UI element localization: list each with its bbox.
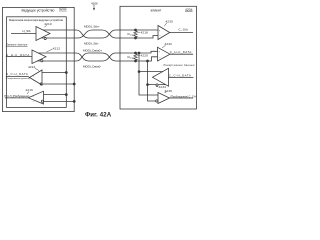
client box 4204 [120,6,197,109]
node 4216 minus tap [73,100,75,102]
svg-text:4212: 4212 [53,46,61,50]
wire H_C-H_DATA output [6,76,30,79]
label reverse data note [6,78,30,80]
receiver U4214 [30,68,43,85]
label MDDI_Stb- [84,42,99,46]
svg-text:C_Stb: C_Stb [179,27,189,31]
svg-text:4204: 4204 [185,8,193,12]
svg-text:Ведущее устройство: Ведущее устройство [22,9,55,13]
label C_C-H wake [170,95,196,98]
wire C_H-C_DATA output [170,53,193,55]
svg-text:Фиг. 42А: Фиг. 42А [85,111,112,118]
wire 4214 minus input [42,83,74,85]
wire H_Stb input [11,33,36,35]
label 4204 [185,8,193,12]
wire 4234 minus output [148,84,166,86]
driver U4210 [36,25,50,41]
label 4210 [44,22,52,26]
label client box title [151,9,162,13]
receiver U4236 [156,92,170,104]
wire 4216 minus input [44,100,75,102]
node 4234 minus tap [147,60,149,86]
resistor R4220 (Rterm on Data0 pair) [134,53,140,61]
node 4214 plus tap [65,72,67,74]
svg-text:Прямые данные: Прямые данные [6,44,28,47]
wire 4236 plus input [139,72,158,95]
wire 4234 minus tap to Data0- [147,61,149,85]
wire H_H-C_DATA input [6,46,32,56]
svg-text:Реверсивные данные: Реверсивные данные [164,64,196,67]
label Rterm bottom [128,55,136,60]
label C_H-C_DATA [170,50,192,54]
svg-text:H_C-H_(Пробуждение): H_C-H_(Пробуждение) [4,95,29,98]
svg-text:4214: 4214 [28,65,36,69]
label plus minus 4216 [33,96,35,103]
host inner box (host controller IC) [7,17,67,108]
svg-text:4210: 4210 [44,22,52,26]
label 4230 [166,19,174,23]
node 4214 minus tap [73,83,75,85]
svg-text:(Пробуждение) C_C-H: (Пробуждение) C_C-H [170,95,196,98]
node 4216 plus tap [65,94,67,96]
label C_C-H_DATA [169,74,191,78]
svg-text:C_C-H_DATA: C_C-H_DATA [169,74,191,78]
wire H_C-H wake output [5,97,29,99]
resistor R4218 (Rterm on Stb pair) [134,30,140,38]
node 4234 plus tap [138,52,140,73]
svg-text:H_C-H_DATA: H_C-H_DATA [6,72,28,76]
label H_C-H wake [4,95,29,98]
label Rterm top [128,32,136,37]
label plus minus 4232 [159,51,161,60]
label 4232 [165,42,173,46]
wire C_C-H_DATA input [169,77,194,79]
callout 4206 cable arrow [93,5,95,11]
label 4220 [141,53,149,57]
receiver U4232 [158,45,171,61]
svg-text:4202: 4202 [59,7,67,11]
svg-text:MDDI_Data0+: MDDI_Data0+ [83,49,102,53]
svg-text:4232: 4232 [165,42,173,46]
wire 4234 plus tap to Data0+ [138,53,140,72]
driver U4234 [153,68,169,86]
label MDDI_Stb+ [84,25,100,29]
label 4234 [156,85,166,89]
svg-text:клиент: клиент [151,9,162,13]
wire MDDI_Data0+ [38,51,158,61]
wire C_Stb output [170,32,193,34]
label H_H-C_DATA [6,53,30,57]
wire MDDI_Stb- [42,30,159,40]
wire 4214 plus input [42,72,66,74]
label 4202 [59,7,67,11]
node R4218 top [135,29,137,31]
label plus minus 4230 [159,29,161,37]
label MDDI_Data0+ [83,49,102,53]
node R4220 bottom [135,60,137,62]
label plus minus 4214 [33,75,35,82]
label 4206 [91,1,98,5]
label H_C-H_DATA [6,72,28,76]
node R4218 bottom [135,37,137,39]
svg-text:(Реверсивные данные): (Реверсивные данные) [6,78,30,80]
label 4214 [28,65,36,69]
wire MDDI_Data0- [37,53,158,62]
label host controller IC title [9,18,64,22]
svg-text:4236: 4236 [165,89,173,93]
wire C_C-H wake output [170,97,194,99]
label C_Stb [179,27,189,31]
svg-text:H_Stb: H_Stb [23,29,31,33]
svg-text:4218: 4218 [141,30,149,34]
svg-text:4216: 4216 [26,88,34,92]
node R4220 top [135,52,137,54]
label MDDI_Data0- [83,65,101,69]
svg-text:4206: 4206 [91,1,98,5]
label reverse data note client [164,64,196,67]
wire 4216 plus input [44,94,67,96]
svg-text:MDDI_Data0-: MDDI_Data0- [83,65,101,69]
label forward data note [6,44,28,47]
label 4216 [26,88,34,92]
svg-text:4230: 4230 [166,19,174,23]
label 4218 [141,30,149,34]
figure caption [85,111,112,118]
svg-text:C_H-C_DATA: C_H-C_DATA [170,50,192,54]
driver U4212 [32,49,53,64]
receiver U4230 [158,23,170,40]
svg-text:MDDI_Stb-: MDDI_Stb- [84,42,99,46]
label 4212 [53,46,61,50]
label H_Stb [23,29,31,33]
host outer box 4202 [3,7,75,111]
svg-text:MDDI_Stb+: MDDI_Stb+ [84,25,100,29]
svg-text:Микросхема контроллера ведущег: Микросхема контроллера ведущего устройст… [9,18,64,22]
svg-text:4220: 4220 [141,53,149,57]
svg-text:H_H-C_DATA: H_H-C_DATA [6,53,30,57]
label 4236 [165,89,173,93]
wire MDDI_Stb+ [43,30,158,38]
receiver U4216 [28,91,44,104]
wire 4234 plus output [139,71,163,73]
wire 4236 minus input [148,85,156,101]
label host box title [22,9,55,13]
